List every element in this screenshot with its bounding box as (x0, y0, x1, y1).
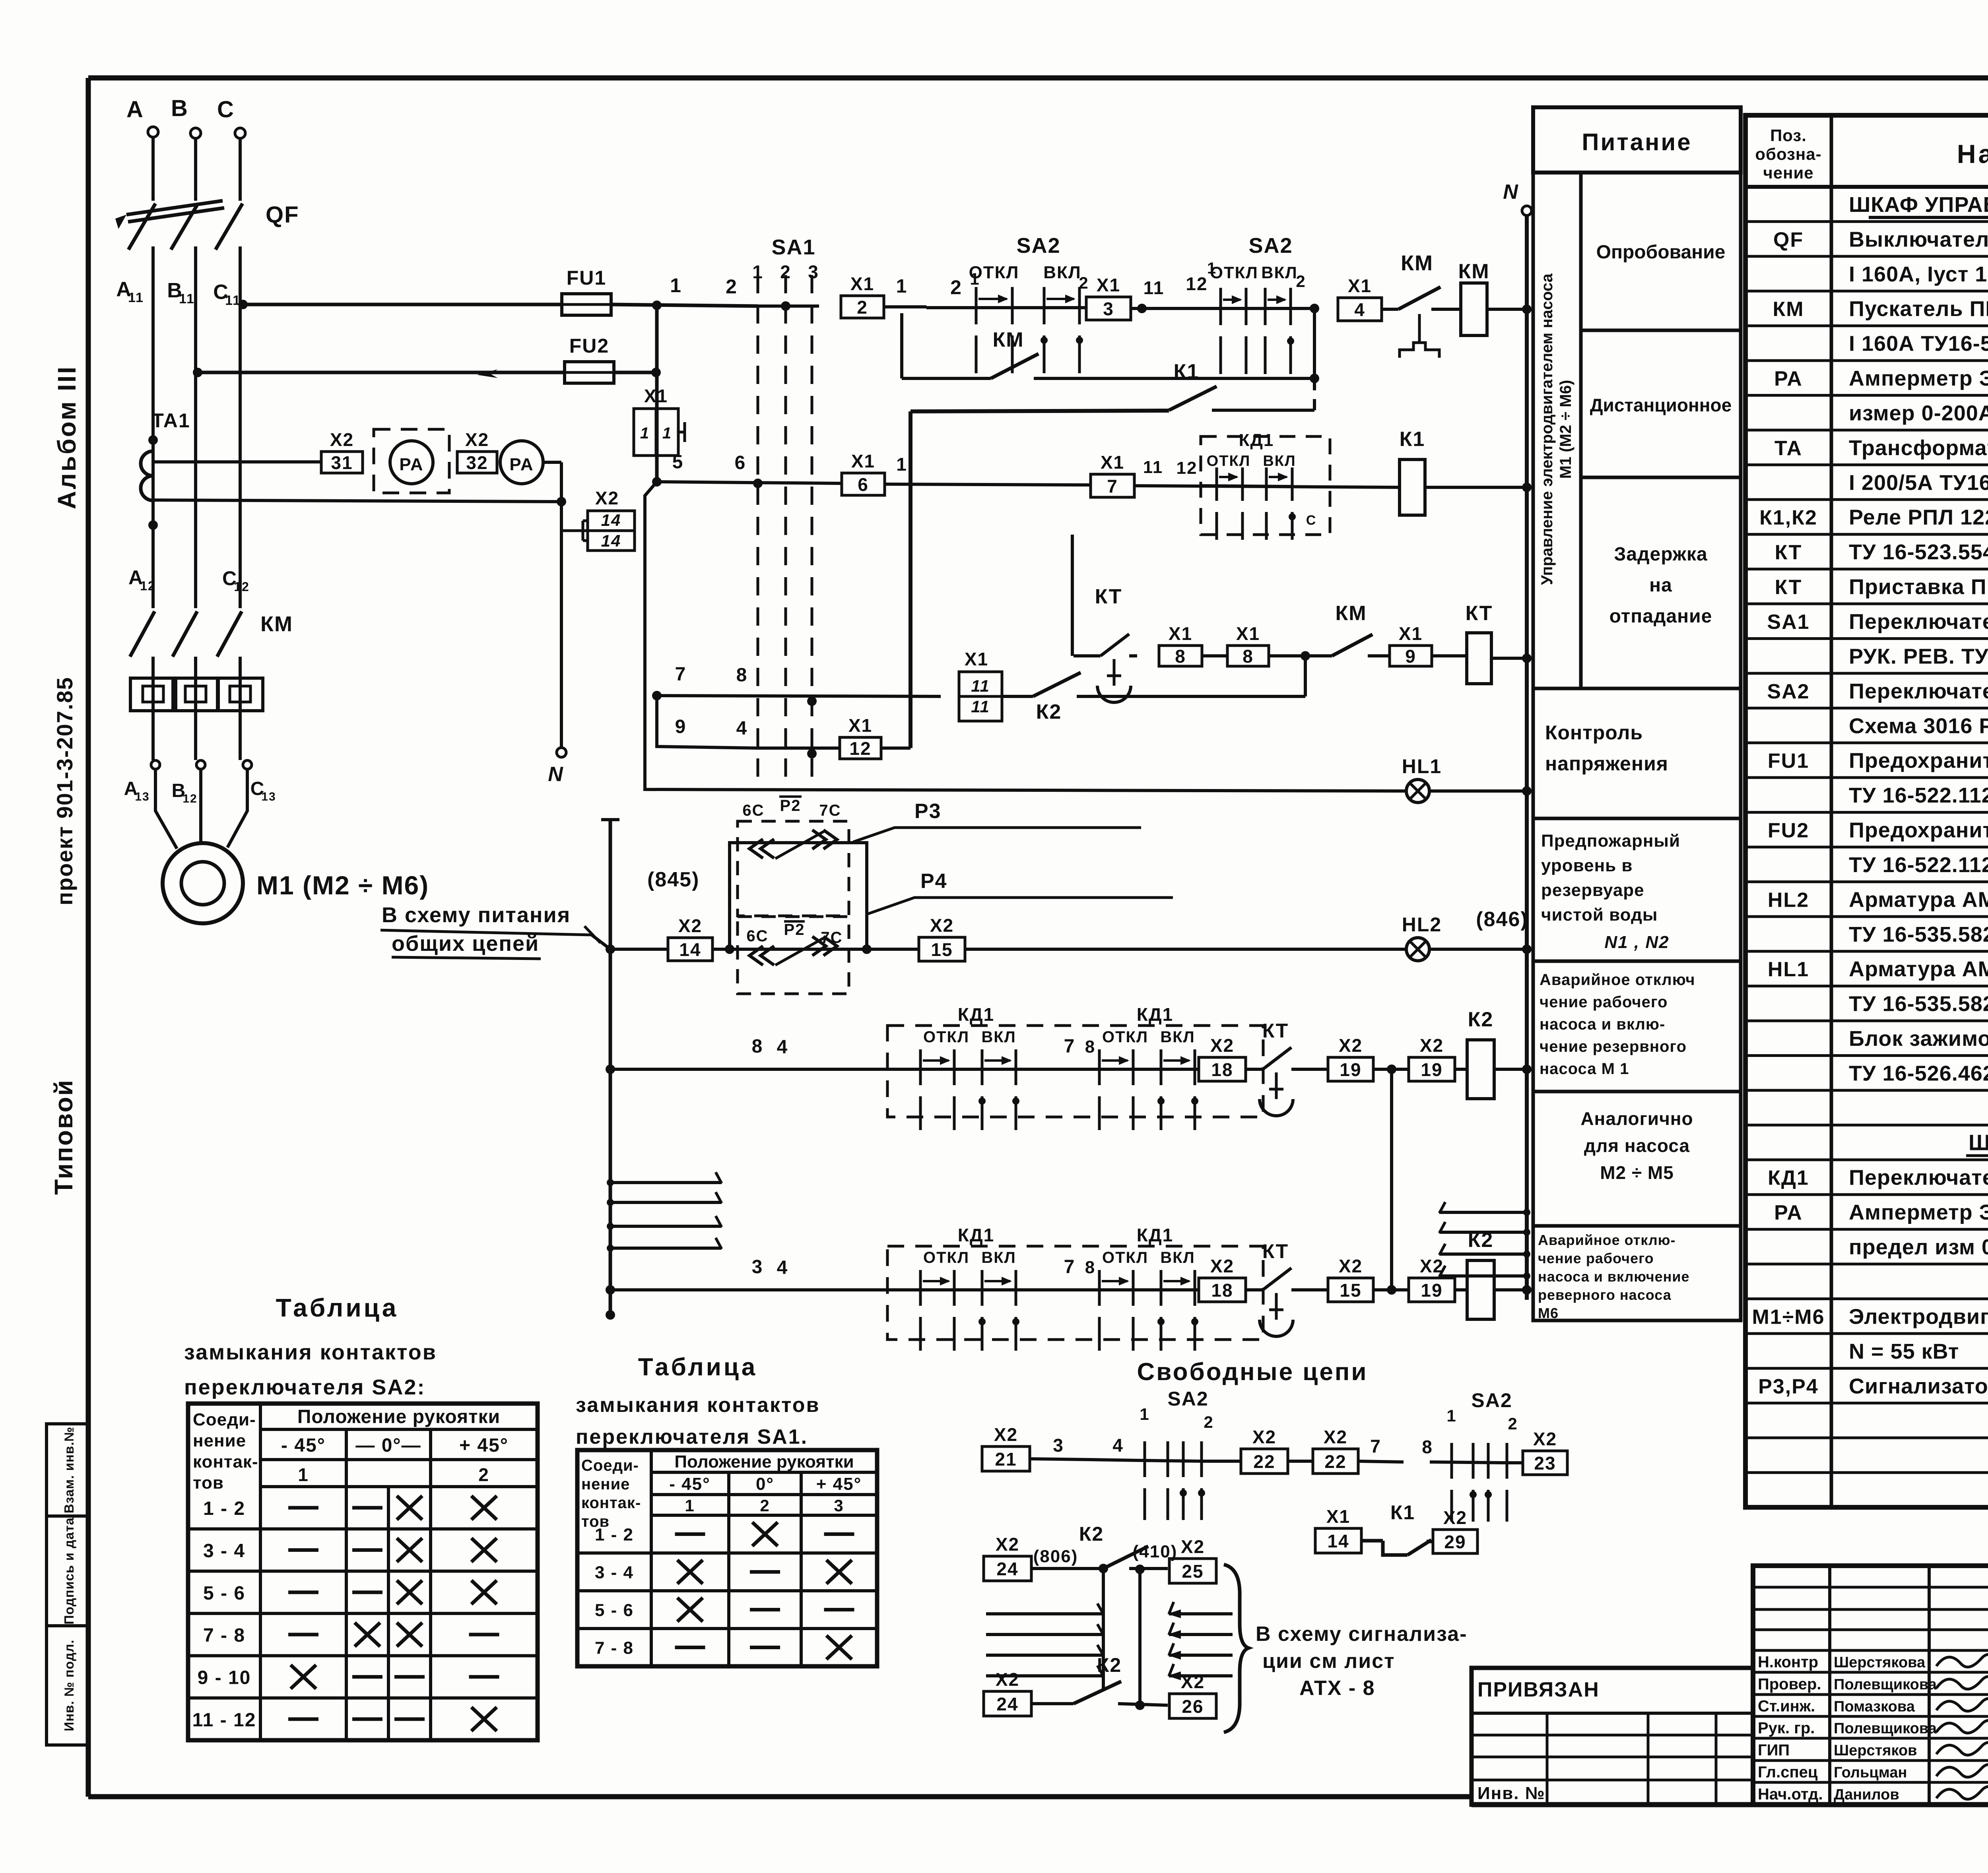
svg-text:насоса и включение: насоса и включение (1538, 1268, 1690, 1285)
svg-text:Аварийное отключ: Аварийное отключ (1540, 971, 1695, 989)
wire aux branch down (900, 313, 903, 378)
svg-text:SA2: SA2 (1471, 1389, 1512, 1412)
svg-text:отпадание: отпадание (1609, 606, 1712, 627)
wire FU1 to node 1 (611, 304, 758, 306)
wire HL2 row (610, 948, 667, 951)
svg-text:К2: К2 (1468, 1008, 1494, 1031)
svg-text:Шерстяков: Шерстяков (1834, 1742, 1917, 1759)
lamp HL1 (1406, 779, 1429, 803)
remote switch KD1 dashed box (887, 1246, 1263, 1340)
svg-text:С: С (217, 97, 235, 122)
svg-text:12: 12 (140, 579, 156, 593)
level sensor branch P4 (738, 917, 849, 994)
svg-text:Сигнализатор ЭРСУ-3 ТУ25.02-08: Сигнализатор ЭРСУ-3 ТУ25.02-080678-79 (1849, 1374, 1988, 1398)
svg-text:Х2: Х2 (1181, 1671, 1205, 1692)
cell Avariynoe M1 (1533, 961, 1741, 1092)
svg-text:7 - 8: 7 - 8 (595, 1638, 634, 1658)
svg-text:нение: нение (193, 1431, 246, 1450)
svg-text:1: 1 (896, 276, 908, 297)
svg-text:1 - 2: 1 - 2 (595, 1525, 634, 1545)
bus C11 to FU1 (243, 303, 562, 306)
switch SA2 free contacts 1 (1139, 1460, 1203, 1461)
svg-text:ции см лист: ции см лист (1262, 1650, 1395, 1673)
svg-text:Х2: Х2 (1533, 1429, 1557, 1449)
wire row7 (652, 691, 662, 700)
svg-text:Питание: Питание (1582, 129, 1692, 155)
svg-text:РУК. РЕВ. ТУ16-526.047-74: РУК. РЕВ. ТУ16-526.047-74 (1849, 644, 1988, 668)
contactor KM main contacts (130, 611, 155, 657)
svg-text:Соеди-: Соеди- (581, 1457, 639, 1474)
svg-text:3 - 4: 3 - 4 (203, 1541, 245, 1562)
svg-text:общих цепей: общих цепей (392, 932, 539, 956)
connector Х2 pin 15 (1328, 1278, 1373, 1302)
svg-text:Реле РПЛ 1220 * 4 ~ 220В: Реле РПЛ 1220 * 4 ~ 220В (1849, 506, 1988, 529)
svg-text:FU2: FU2 (569, 335, 609, 357)
svg-text:Х1: Х1 (850, 273, 874, 294)
svg-text:Трансформатор тока ТК 20-0,5: Трансформатор тока ТК 20-0,5УЗ (1849, 436, 1988, 460)
connector X2 14/14 (561, 529, 588, 532)
svg-text:насоса М 1: насоса М 1 (1540, 1060, 1629, 1078)
svg-text:чение рабочего: чение рабочего (1540, 993, 1668, 1011)
svg-text:4: 4 (777, 1257, 788, 1278)
svg-text:19: 19 (1421, 1059, 1442, 1080)
svg-text:3: 3 (808, 262, 819, 282)
cell Oprobovanie (1581, 173, 1741, 330)
svg-text:Переключатель ПКУЗ-12А-3016: Переключатель ПКУЗ-12А-3016 (1849, 1166, 1988, 1190)
link to KT row (1304, 656, 1307, 696)
svg-text:Контроль: Контроль (1545, 721, 1643, 744)
svg-text:Х2: Х2 (1210, 1035, 1234, 1056)
svg-text:контак-: контак- (581, 1494, 641, 1512)
svg-text:измер 0-200А ТТ 200/5А ТУ25.: измер 0-200А ТТ 200/5А ТУ25.04-1308-76 (1849, 401, 1988, 425)
svg-text:КМ: КМ (1401, 251, 1433, 275)
svg-text:ВКЛ: ВКЛ (1160, 1028, 1195, 1046)
svg-text:Наименование: Наименование (1957, 139, 1988, 169)
svg-text:Приставка ПВЛ 2204 ТУ16-523.: Приставка ПВЛ 2204 ТУ16-523.554-78 (1849, 575, 1988, 599)
svg-text:14: 14 (601, 531, 621, 550)
svg-text:ОТКЛ: ОТКЛ (1102, 1028, 1148, 1046)
svg-text:Х2: Х2 (1210, 1256, 1234, 1276)
svg-text:SA2: SA2 (1016, 234, 1060, 258)
svg-text:К1,К2: К1,К2 (1759, 506, 1817, 529)
svg-text:12: 12 (849, 738, 871, 759)
connector Х2 pin 22 (1241, 1449, 1288, 1474)
svg-text:М6: М6 (1538, 1305, 1559, 1321)
svg-text:2: 2 (1508, 1414, 1518, 1433)
wire X1-2 to SA2 (884, 305, 926, 308)
wire phase A upper (151, 137, 155, 201)
svg-text:18: 18 (1211, 1280, 1233, 1301)
svg-text:К2: К2 (1036, 700, 1062, 723)
svg-text:ВКЛ: ВКЛ (1261, 263, 1297, 282)
wire SA2-2 to X1-4 (1291, 307, 1318, 310)
svg-text:ТУ 16-535.582-76: ТУ 16-535.582-76 (1849, 992, 1988, 1016)
svg-text:А: А (126, 97, 144, 122)
svg-text:Амперметр Э377 кл 1,5 пред: Амперметр Э377 кл 1,5 предел (1849, 366, 1988, 390)
svg-text:7: 7 (1107, 476, 1118, 496)
svg-text:2: 2 (857, 297, 868, 318)
svg-text:контак-: контак- (193, 1452, 258, 1472)
svg-text:Положение рукоятки: Положение рукоятки (297, 1406, 500, 1427)
terminals to motor (151, 760, 160, 769)
svg-text:Х1: Х1 (1101, 452, 1124, 473)
svg-text:на: на (1649, 575, 1672, 596)
svg-text:Схема 3016 РУК. РЕВ ТУ16-526.: Схема 3016 РУК. РЕВ ТУ16-526.047-74 (1849, 714, 1988, 738)
svg-text:Рук. гр.: Рук. гр. (1758, 1720, 1815, 1737)
svg-text:4: 4 (1354, 299, 1365, 320)
connector Х2 pin 22 (1313, 1449, 1358, 1474)
svg-text:Х2: Х2 (996, 1534, 1019, 1555)
svg-text:Р2: Р2 (780, 797, 801, 814)
svg-text:М1 (М2 ÷ М6): М1 (М2 ÷ М6) (256, 871, 429, 900)
svg-text:Х2: Х2 (678, 915, 702, 936)
svg-text:FU1: FU1 (567, 267, 606, 289)
svg-text:Таблица: Таблица (276, 1293, 399, 1322)
svg-text:Предохранитель ПРС 6УЗ-П Iпл.: Предохранитель ПРС 6УЗ-П Iпл.вст 1А (1849, 818, 1988, 842)
vertical link row1 (1313, 308, 1316, 378)
svg-text:Х1: Х1 (1399, 623, 1423, 644)
svg-text:3: 3 (1103, 299, 1114, 319)
time contact KT (1093, 654, 1101, 657)
connector Х1 pin 6 (842, 473, 885, 495)
connector Х1 pin 12 (840, 737, 881, 759)
svg-text:I 200/5А ТУ16-517.442-80: I 200/5А ТУ16-517.442-80 (1849, 471, 1988, 494)
svg-text:РА: РА (399, 455, 423, 474)
wire KT row (1074, 654, 1093, 657)
svg-text:12: 12 (234, 580, 250, 594)
svg-text:6: 6 (735, 452, 746, 473)
title block frame (1753, 1566, 1988, 1805)
svg-text:29: 29 (1444, 1532, 1466, 1552)
svg-text:КМ: КМ (992, 328, 1024, 351)
switch SA1 stems (757, 275, 759, 778)
CT return wire (153, 500, 561, 502)
svg-text:1: 1 (298, 1464, 309, 1485)
terminal N motor circuit (557, 748, 566, 757)
svg-text:КТ: КТ (1095, 585, 1122, 608)
vertical 410 (1138, 1569, 1142, 1705)
svg-text:Х2: Х2 (994, 1424, 1018, 1445)
svg-text:М1 (М2 ÷ М6): М1 (М2 ÷ М6) (1557, 380, 1574, 479)
switch KD1 contacts group A (918, 1068, 1018, 1071)
svg-text:14: 14 (679, 939, 701, 960)
svg-text:Р3: Р3 (914, 800, 942, 823)
svg-text:чистой воды: чистой воды (1541, 905, 1658, 925)
connector Х2 pin 32 (457, 452, 497, 473)
svg-text:Альбом III: Альбом III (52, 365, 81, 509)
svg-text:В схему питания: В схему питания (382, 903, 571, 927)
svg-text:26: 26 (1182, 1696, 1204, 1717)
svg-text:Х2: Х2 (996, 1669, 1019, 1690)
svg-text:замыкания контактов: замыкания контактов (576, 1394, 820, 1417)
wire SA2 to X1-3 (1079, 306, 1085, 309)
wire node1 row through SA1 (758, 304, 819, 308)
margin stamp box vzaim inv (47, 1424, 88, 1516)
circuit breaker QF (128, 204, 155, 250)
wire phase A lower (151, 657, 155, 760)
svg-text:I 160А, Iуст 1600А ТУ16-522.: I 160А, Iуст 1600А ТУ16-522.028-77 (1849, 262, 1988, 286)
connector Х2 pin 29 (1433, 1530, 1477, 1553)
svg-text:Щит диспетчера: Щит диспетчера (1969, 1130, 1988, 1155)
svg-text:22: 22 (1253, 1451, 1275, 1472)
svg-text:переключателя SA2:: переключателя SA2: (184, 1375, 425, 1399)
svg-text:FU1: FU1 (1768, 750, 1809, 773)
wire row9 (657, 696, 758, 748)
svg-text:предел изм 0-200 А: предел изм 0-200 А (1849, 1235, 1988, 1259)
connector Х1 pins 1/1 (634, 409, 678, 456)
svg-text:К1: К1 (1390, 1501, 1415, 1524)
svg-text:Провер.: Провер. (1758, 1675, 1821, 1693)
svg-text:7: 7 (675, 664, 687, 685)
sensor callout P3 (853, 828, 1141, 842)
svg-text:14: 14 (1327, 1531, 1349, 1551)
svg-text:14: 14 (601, 511, 621, 529)
svg-text:Х1: Х1 (851, 451, 875, 471)
svg-text:7С: 7С (821, 929, 843, 946)
svg-text:SA2: SA2 (1767, 680, 1809, 703)
svg-text:Типовой: Типовой (49, 1079, 78, 1195)
svg-text:переключателя SA1.: переключателя SA1. (576, 1425, 808, 1448)
svg-text:Нач.отд.: Нач.отд. (1758, 1786, 1823, 1803)
svg-text:Помазкова: Помазкова (1834, 1698, 1915, 1715)
vertical 806 (1102, 1569, 1105, 1690)
svg-text:КТ: КТ (1775, 541, 1802, 564)
vertical feeder wire (655, 304, 659, 485)
feeder 845 vertical (609, 820, 612, 1315)
svg-text:I 160А ТУ16-526.391-79: I 160А ТУ16-526.391-79 (1849, 332, 1988, 356)
svg-text:3: 3 (752, 1256, 763, 1278)
svg-text:7: 7 (1064, 1036, 1076, 1057)
svg-text:Аварийное отклю-: Аварийное отклю- (1538, 1232, 1675, 1248)
svg-text:чение: чение (1763, 163, 1813, 182)
svg-text:Положение рукоятки: Положение рукоятки (674, 1452, 854, 1472)
svg-text:11: 11 (971, 697, 990, 716)
svg-text:Свободные цепи: Свободные цепи (1137, 1358, 1368, 1386)
cell Predpozharny uroven (1533, 818, 1741, 961)
svg-text:SA1: SA1 (1767, 611, 1809, 634)
connector Х2 pin 26 (1169, 1694, 1216, 1718)
table SA2 row 3 - 4 (188, 1527, 538, 1530)
svg-text:ОТКЛ: ОТКЛ (923, 1028, 969, 1046)
svg-text:Соеди-: Соеди- (193, 1410, 256, 1429)
svg-text:Х2: Х2 (1252, 1427, 1276, 1447)
sensor callout P4 (867, 898, 1173, 914)
fuse FU2 (565, 362, 614, 383)
svg-text:N1 , N2: N1 , N2 (1604, 933, 1669, 952)
svg-text:5 - 6: 5 - 6 (595, 1601, 634, 1620)
brace to signal circuits (1224, 1565, 1248, 1732)
svg-text:2: 2 (1079, 273, 1089, 292)
connector Х1 pin 14 (1315, 1528, 1361, 1553)
svg-text:Х1: Х1 (1348, 275, 1372, 296)
svg-text:Задержка: Задержка (1614, 544, 1707, 565)
svg-text:КМ: КМ (260, 612, 293, 636)
ammeter PA panel (390, 441, 433, 484)
wire KM coil to N bus (1487, 308, 1527, 311)
svg-text:ТУ 16-522.112-74: ТУ 16-522.112-74 (1849, 853, 1988, 877)
connector Х1 pin 4 (1338, 298, 1382, 321)
svg-text:РА: РА (509, 455, 534, 474)
svg-text:(845): (845) (647, 868, 699, 891)
svg-text:Х1: Х1 (1169, 623, 1192, 644)
thermal overload relays (130, 678, 176, 711)
svg-text:15: 15 (931, 939, 953, 960)
reserve wires left group (610, 1181, 722, 1184)
svg-text:КД1: КД1 (1239, 430, 1274, 450)
terminal A (148, 127, 158, 137)
svg-text:КТ: КТ (1466, 602, 1493, 625)
svg-text:2: 2 (950, 276, 962, 299)
svg-text:11: 11 (1143, 458, 1163, 477)
time contact KT (1256, 1288, 1263, 1291)
svg-text:8: 8 (1175, 646, 1186, 667)
svg-text:9 - 10: 9 - 10 (198, 1667, 251, 1689)
svg-text:Х1: Х1 (1097, 275, 1120, 295)
connector Х2 pins 14/14 (588, 511, 635, 551)
svg-text:КМ: КМ (1458, 260, 1489, 283)
svg-text:- 45°: - 45° (669, 1474, 710, 1494)
svg-text:4: 4 (736, 718, 748, 739)
svg-text:ТУ 16-522.112-74.: ТУ 16-522.112-74. (1849, 783, 1988, 807)
svg-text:КД1: КД1 (1137, 1225, 1173, 1245)
svg-text:Пускатель ПМА 52024ХЛ4 ~220В: Пускатель ПМА 52024ХЛ4 ~220В (1849, 297, 1988, 321)
auxiliary contact KM (902, 377, 991, 380)
cell Zaderzhka na otpadanie (1581, 477, 1741, 688)
svg-text:13: 13 (135, 790, 149, 803)
svg-text:6: 6 (858, 474, 869, 495)
svg-text:АТХ - 8: АТХ - 8 (1299, 1677, 1375, 1700)
link rows vertical (1390, 1069, 1393, 1290)
table SA2 grid (188, 1404, 538, 1740)
auxiliary contact K1 (911, 411, 1169, 411)
svg-text:2: 2 (780, 262, 791, 282)
ammeter PA local (500, 441, 543, 484)
svg-text:11: 11 (128, 290, 144, 305)
svg-text:2: 2 (760, 1496, 770, 1515)
svg-text:Инв. № подл.: Инв. № подл. (62, 1640, 76, 1731)
wire phase C upper (239, 138, 242, 201)
connector Х2 pin 15 (919, 937, 965, 961)
svg-text:РА: РА (1774, 367, 1803, 390)
svg-text:Н.контр: Н.контр (1758, 1654, 1818, 1671)
svg-text:19: 19 (1340, 1059, 1361, 1080)
svg-text:Х2: Х2 (1420, 1035, 1444, 1056)
relay coil К2 (1467, 1040, 1494, 1099)
svg-text:Полевщикова: Полевщикова (1834, 1676, 1937, 1693)
svg-text:КД1: КД1 (1768, 1167, 1809, 1190)
svg-text:Х2: Х2 (1339, 1035, 1363, 1056)
svg-text:N = 55 кВт: N = 55 кВт (1849, 1340, 1959, 1363)
svg-text:Блок зажимов Б324-4П25-В/ВУЗ: Блок зажимов Б324-4П25-В/ВУЗ-10 (1849, 1027, 1988, 1051)
svg-text:Х1: Х1 (848, 715, 872, 736)
svg-text:Ст.инж.: Ст.инж. (1758, 1698, 1815, 1715)
svg-text:6С: 6С (742, 802, 764, 819)
connector Х2 pin 18 (1199, 1278, 1246, 1302)
connector Х2 pin 19 (1409, 1278, 1455, 1302)
svg-text:3: 3 (834, 1496, 844, 1515)
svg-text:Электродвигатель А02-82-2УЗ: Электродвигатель А02-82-2УЗ (1849, 1305, 1988, 1328)
svg-text:5: 5 (672, 452, 684, 473)
svg-text:Гольцман: Гольцман (1834, 1764, 1907, 1781)
svg-text:2: 2 (478, 1464, 489, 1485)
svg-text:В схему сигнализа-: В схему сигнализа- (1256, 1623, 1468, 1646)
connector Х2 pin 31 (321, 452, 363, 473)
table SA2 row 9 - 10 (188, 1654, 538, 1657)
svg-text:Данилов: Данилов (1834, 1786, 1899, 1803)
svg-text:QF: QF (1773, 228, 1804, 251)
svg-text:М2 ÷ М5: М2 ÷ М5 (1600, 1162, 1674, 1183)
table SA2 row 7 - 8 (188, 1612, 538, 1615)
svg-text:25: 25 (1182, 1561, 1204, 1582)
fuse FU1 (562, 294, 611, 315)
svg-text:Выключатель А3712 ФУЗ ~380В,: Выключатель А3712 ФУЗ ~380В, (1849, 227, 1988, 251)
privyazan table (1472, 1668, 1753, 1805)
svg-text:Шерстякова: Шерстякова (1834, 1654, 1926, 1671)
svg-text:FU2: FU2 (1768, 819, 1809, 842)
svg-text:7 - 8: 7 - 8 (203, 1625, 245, 1646)
svg-text:Полевщикова: Полевщикова (1834, 1720, 1937, 1737)
svg-text:ТУ 16-526.462-79: ТУ 16-526.462-79 (1849, 1061, 1988, 1085)
svg-text:Х2: Х2 (465, 429, 489, 450)
motor M1 (155, 769, 177, 849)
svg-text:ШКАФ УПРАВЛЕНИЯ Ш1 (Ш2÷Ш6): ШКАФ УПРАВЛЕНИЯ Ш1 (Ш2÷Ш6) (1849, 193, 1988, 217)
wire phase C mid (239, 246, 242, 608)
svg-text:2: 2 (1204, 1413, 1213, 1431)
table SA2 row 11 - 12 (188, 1697, 538, 1700)
svg-text:КМ: КМ (1773, 298, 1804, 321)
svg-text:+ 45°: + 45° (816, 1474, 862, 1494)
svg-text:HL1: HL1 (1402, 755, 1442, 778)
connector Х1 pin 2 (841, 296, 884, 318)
svg-text:1: 1 (640, 425, 650, 442)
svg-text:К2: К2 (1079, 1523, 1104, 1545)
margin stamp box inv no podl (47, 1626, 88, 1745)
reserve stubs K2 left (986, 1612, 1103, 1615)
auxiliary contact KM row KT (1332, 634, 1373, 656)
title block signature rows (1753, 1671, 1988, 1674)
svg-text:11 - 12: 11 - 12 (192, 1710, 256, 1731)
svg-text:Р4: Р4 (920, 870, 947, 893)
connector Х2 pin 21 (982, 1446, 1030, 1471)
connector Х1 pin 8 (1159, 646, 1202, 666)
cell Avariynoe M6 (1533, 1226, 1741, 1320)
svg-text:Таблица: Таблица (638, 1353, 757, 1381)
switch SA2 free contacts 2 (1430, 1462, 1507, 1463)
svg-text:3: 3 (1053, 1435, 1064, 1456)
svg-text:+ 45°: + 45° (459, 1435, 509, 1456)
svg-text:HL2: HL2 (1768, 888, 1809, 911)
svg-text:нение: нение (581, 1476, 630, 1493)
svg-text:для насоса: для насоса (1584, 1135, 1690, 1156)
svg-text:Х2: Х2 (330, 429, 354, 450)
svg-text:К1: К1 (1174, 360, 1200, 383)
svg-text:Поз.: Поз. (1770, 126, 1807, 145)
svg-text:- 45°: - 45° (281, 1435, 326, 1456)
wire pump control row y=2690 (610, 1068, 918, 1071)
svg-text:РА: РА (1774, 1201, 1803, 1224)
switch KD1 contacts group B (1097, 1288, 1197, 1291)
svg-text:11: 11 (179, 291, 195, 306)
svg-text:КТ: КТ (1262, 1020, 1289, 1042)
connector Х1 pin 9 (1390, 646, 1432, 666)
svg-text:32: 32 (466, 452, 488, 473)
svg-text:8: 8 (1242, 646, 1254, 667)
svg-text:Х2: Х2 (595, 488, 619, 508)
svg-text:7: 7 (1064, 1256, 1076, 1278)
svg-text:19: 19 (1421, 1280, 1442, 1301)
svg-text:9: 9 (1405, 646, 1416, 667)
svg-text:ВКЛ: ВКЛ (1160, 1249, 1195, 1266)
